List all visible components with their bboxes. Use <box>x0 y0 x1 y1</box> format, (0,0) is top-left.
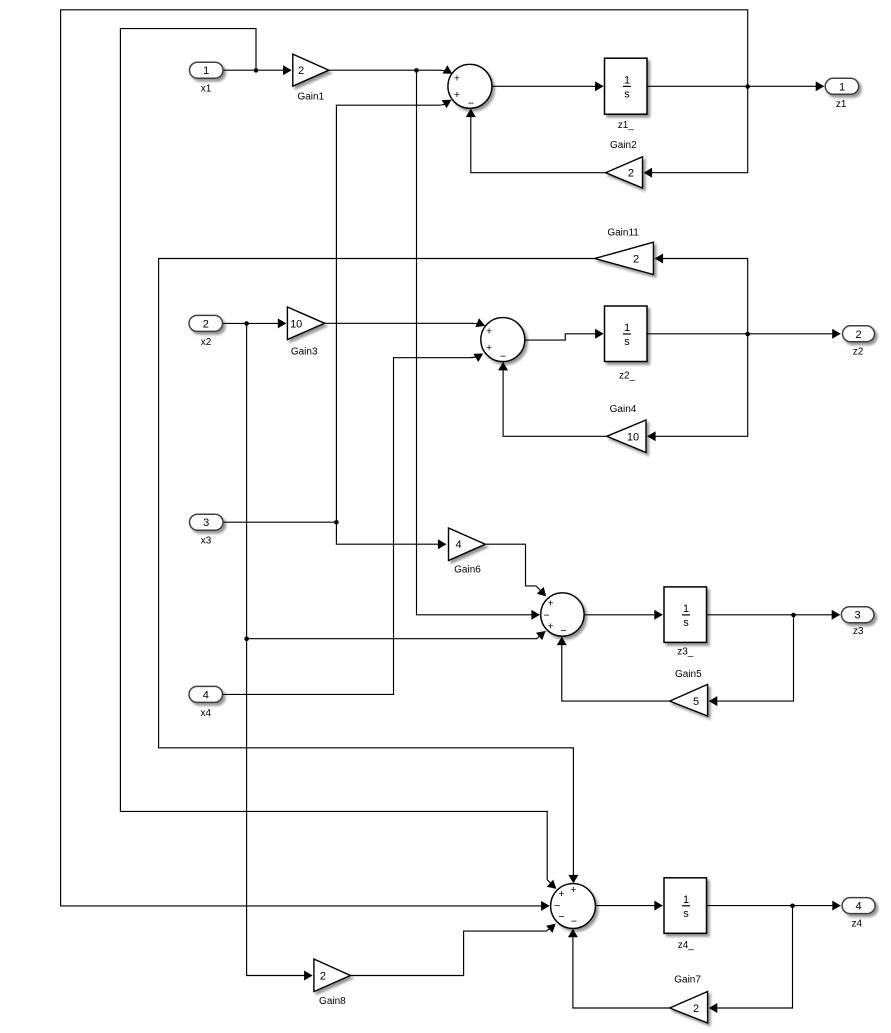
svg-text:2: 2 <box>320 971 326 983</box>
svg-text:2: 2 <box>298 65 304 77</box>
svg-text:s: s <box>683 908 689 920</box>
svg-text:s: s <box>683 617 689 629</box>
svg-text:4: 4 <box>455 539 461 551</box>
svg-text:Gain11: Gain11 <box>607 227 639 238</box>
svg-text:z3: z3 <box>853 626 864 637</box>
svg-text:x2: x2 <box>201 337 212 348</box>
svg-text:1: 1 <box>839 81 845 93</box>
svg-text:+: + <box>454 73 460 85</box>
svg-text:z3_: z3_ <box>677 647 694 658</box>
svg-text:2: 2 <box>855 329 861 341</box>
svg-text:s: s <box>624 336 630 348</box>
svg-text:3: 3 <box>855 610 861 622</box>
svg-text:z4: z4 <box>852 919 863 930</box>
svg-text:Gain8: Gain8 <box>319 996 346 1007</box>
svg-text:z4_: z4_ <box>678 940 695 951</box>
svg-text:Gain6: Gain6 <box>454 565 481 576</box>
svg-text:4: 4 <box>856 901 862 913</box>
svg-text:s: s <box>624 89 630 101</box>
svg-text:+: + <box>548 620 554 632</box>
svg-text:Gain5: Gain5 <box>675 669 702 680</box>
svg-text:Gain3: Gain3 <box>291 346 318 357</box>
svg-text:+: + <box>570 884 576 896</box>
svg-text:1: 1 <box>203 65 209 77</box>
svg-text:Gain2: Gain2 <box>610 140 637 151</box>
svg-text:x4: x4 <box>201 708 212 719</box>
svg-text:z1: z1 <box>836 99 847 110</box>
svg-text:z1_: z1_ <box>618 120 635 131</box>
svg-text:3: 3 <box>203 517 209 529</box>
svg-text:10: 10 <box>627 431 639 443</box>
svg-text:2: 2 <box>693 1003 699 1015</box>
svg-text:−: − <box>500 351 506 363</box>
svg-text:−: − <box>560 625 566 637</box>
svg-text:+: + <box>548 597 554 609</box>
svg-text:Gain7: Gain7 <box>674 975 701 986</box>
svg-text:+: + <box>486 342 492 354</box>
svg-text:Gain1: Gain1 <box>297 92 324 103</box>
svg-text:2: 2 <box>628 168 634 180</box>
svg-text:10: 10 <box>290 318 302 330</box>
svg-text:2: 2 <box>633 254 639 266</box>
svg-text:1: 1 <box>624 322 630 334</box>
svg-text:1: 1 <box>683 603 689 615</box>
svg-text:z2: z2 <box>853 346 864 357</box>
svg-text:−: − <box>571 916 577 928</box>
svg-text:−: − <box>468 98 474 110</box>
svg-text:1: 1 <box>683 894 689 906</box>
svg-text:4: 4 <box>203 689 209 701</box>
svg-text:1: 1 <box>624 74 630 86</box>
svg-text:x3: x3 <box>201 536 212 547</box>
svg-text:−: − <box>558 911 564 923</box>
svg-text:2: 2 <box>203 318 209 330</box>
svg-text:+: + <box>558 888 564 900</box>
svg-text:+: + <box>486 325 492 337</box>
svg-text:Gain4: Gain4 <box>610 404 637 415</box>
svg-text:x1: x1 <box>201 84 212 95</box>
svg-text:+: + <box>454 89 460 101</box>
svg-text:z2_: z2_ <box>619 370 636 381</box>
svg-text:5: 5 <box>693 696 699 708</box>
